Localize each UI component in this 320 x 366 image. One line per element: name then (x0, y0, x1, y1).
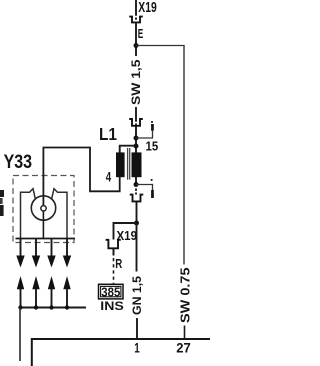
wire: top feed from X19 (135, 0, 137, 14)
node: junction of SW1.5 branch (134, 43, 139, 48)
node: junction to test pin (134, 136, 139, 141)
svg-text:GN 1,5: GN 1,5 (130, 276, 144, 315)
wire: connector to lower junction (136, 201, 138, 223)
svg-text:15: 15 (146, 139, 159, 154)
connector socket at coil terminal 1 (130, 195, 144, 202)
wire: branch left to X19 connector (114, 223, 137, 240)
spark plug 4 (arrow up) (63, 276, 70, 289)
svg-text:R: R (115, 257, 122, 271)
wire dashed into coil bottom connector (135, 185, 137, 195)
bus bar at bottom (terminal strip) (32, 339, 210, 366)
Y33 dashed boundary box (13, 176, 74, 243)
wire: branch to SW 0.75 run (horizontal) (136, 45, 184, 48)
svg-text:X19: X19 (117, 229, 138, 243)
pin mate dot (upper) (151, 121, 153, 123)
svg-text:X19: X19 (138, 0, 157, 16)
pin contact bar (lower) (151, 190, 154, 198)
node: terminal 15 junction (134, 144, 139, 149)
wire dashed below connector (113, 248, 115, 255)
svg-text:1: 1 (134, 340, 140, 355)
distributor rotor circle (31, 196, 55, 220)
scan artifact at left edge (0, 190, 4, 197)
svg-text:E: E (138, 26, 144, 41)
spark output 1 (arrow down) (20, 239, 22, 257)
wire: connector to coil (135, 126, 137, 154)
svg-text:SW 0.75: SW 0.75 (179, 267, 193, 323)
svg-text:4: 4 (106, 168, 112, 184)
wire (dashed inside connector X19 top) (135, 14, 137, 24)
destination code box 385 inner (101, 286, 121, 296)
coil L1 secondary winding (right block) (132, 152, 142, 177)
wire: SW 0.75 vertical run (183, 46, 185, 265)
wire: GN 1.5 run down from junction (136, 223, 138, 272)
wire: connector to junction (135, 22, 137, 56)
svg-text:SW 1,5: SW 1,5 (129, 59, 143, 105)
spark output 3 (arrow down) (51, 239, 53, 257)
wire: branch right to pin (136, 131, 153, 138)
wire: right winding bottom to junction (135, 177, 137, 185)
wire: coil terminal 4 to distributor (HT lead) (43, 148, 119, 206)
wire: SW stub to bus (184, 326, 186, 341)
wire: to primary winding top (left) (120, 146, 136, 153)
ground bus under spark plugs (21, 307, 87, 309)
node dots on ground bus (18, 305, 22, 309)
svg-text:385: 385 (101, 285, 120, 300)
wire: below label to connector (135, 107, 137, 120)
wire: GN stub to bus (136, 318, 138, 340)
wire: rotor to cap bus (42, 211, 44, 238)
wire dashed inside coil connector (135, 120, 137, 127)
spark plug 1 (arrow up) (17, 276, 24, 289)
wire dashed to code box (113, 258, 115, 284)
coil core line 1 (127, 148, 129, 180)
spark output 4 (arrow down) (66, 239, 68, 257)
node: junction to X19/R branch (134, 221, 139, 226)
node: coil bottom junction (134, 182, 139, 187)
connector X19 (top) socket symbol (129, 17, 143, 23)
destination code box 385 outer (99, 284, 124, 299)
svg-text:L1: L1 (99, 124, 117, 144)
ground wire down (19, 308, 21, 362)
distributor cap bus (16, 238, 76, 240)
svg-text:Y33: Y33 (4, 152, 32, 173)
svg-text:INS: INS (100, 301, 124, 313)
wire: branch right to pin (lower) (136, 185, 153, 191)
spark plug 2 (arrow up) (32, 276, 39, 289)
coil core line 2 (129, 148, 131, 180)
spark output 2 (arrow down) (35, 239, 37, 257)
distributor housing outline (21, 189, 68, 239)
pin contact bar (upper) (151, 124, 154, 131)
svg-text:27: 27 (176, 341, 191, 356)
coil L1 primary winding (left block) (116, 152, 125, 177)
connector socket at coil terminal 15 (129, 119, 143, 126)
rotor center dot circle (41, 206, 46, 211)
pin mate dot (lower) (151, 179, 153, 181)
connector X19 (bottom) socket symbol (106, 240, 121, 249)
spark plug 3 (arrow up) (48, 276, 55, 289)
